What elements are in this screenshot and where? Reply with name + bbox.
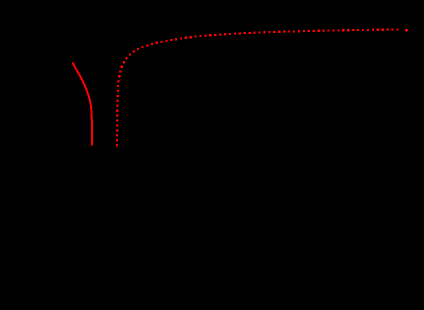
dotted red curve (right branch) (116, 28, 399, 146)
end mark of dotted curve (405, 29, 408, 32)
solid red curve (left branch) (73, 63, 92, 146)
